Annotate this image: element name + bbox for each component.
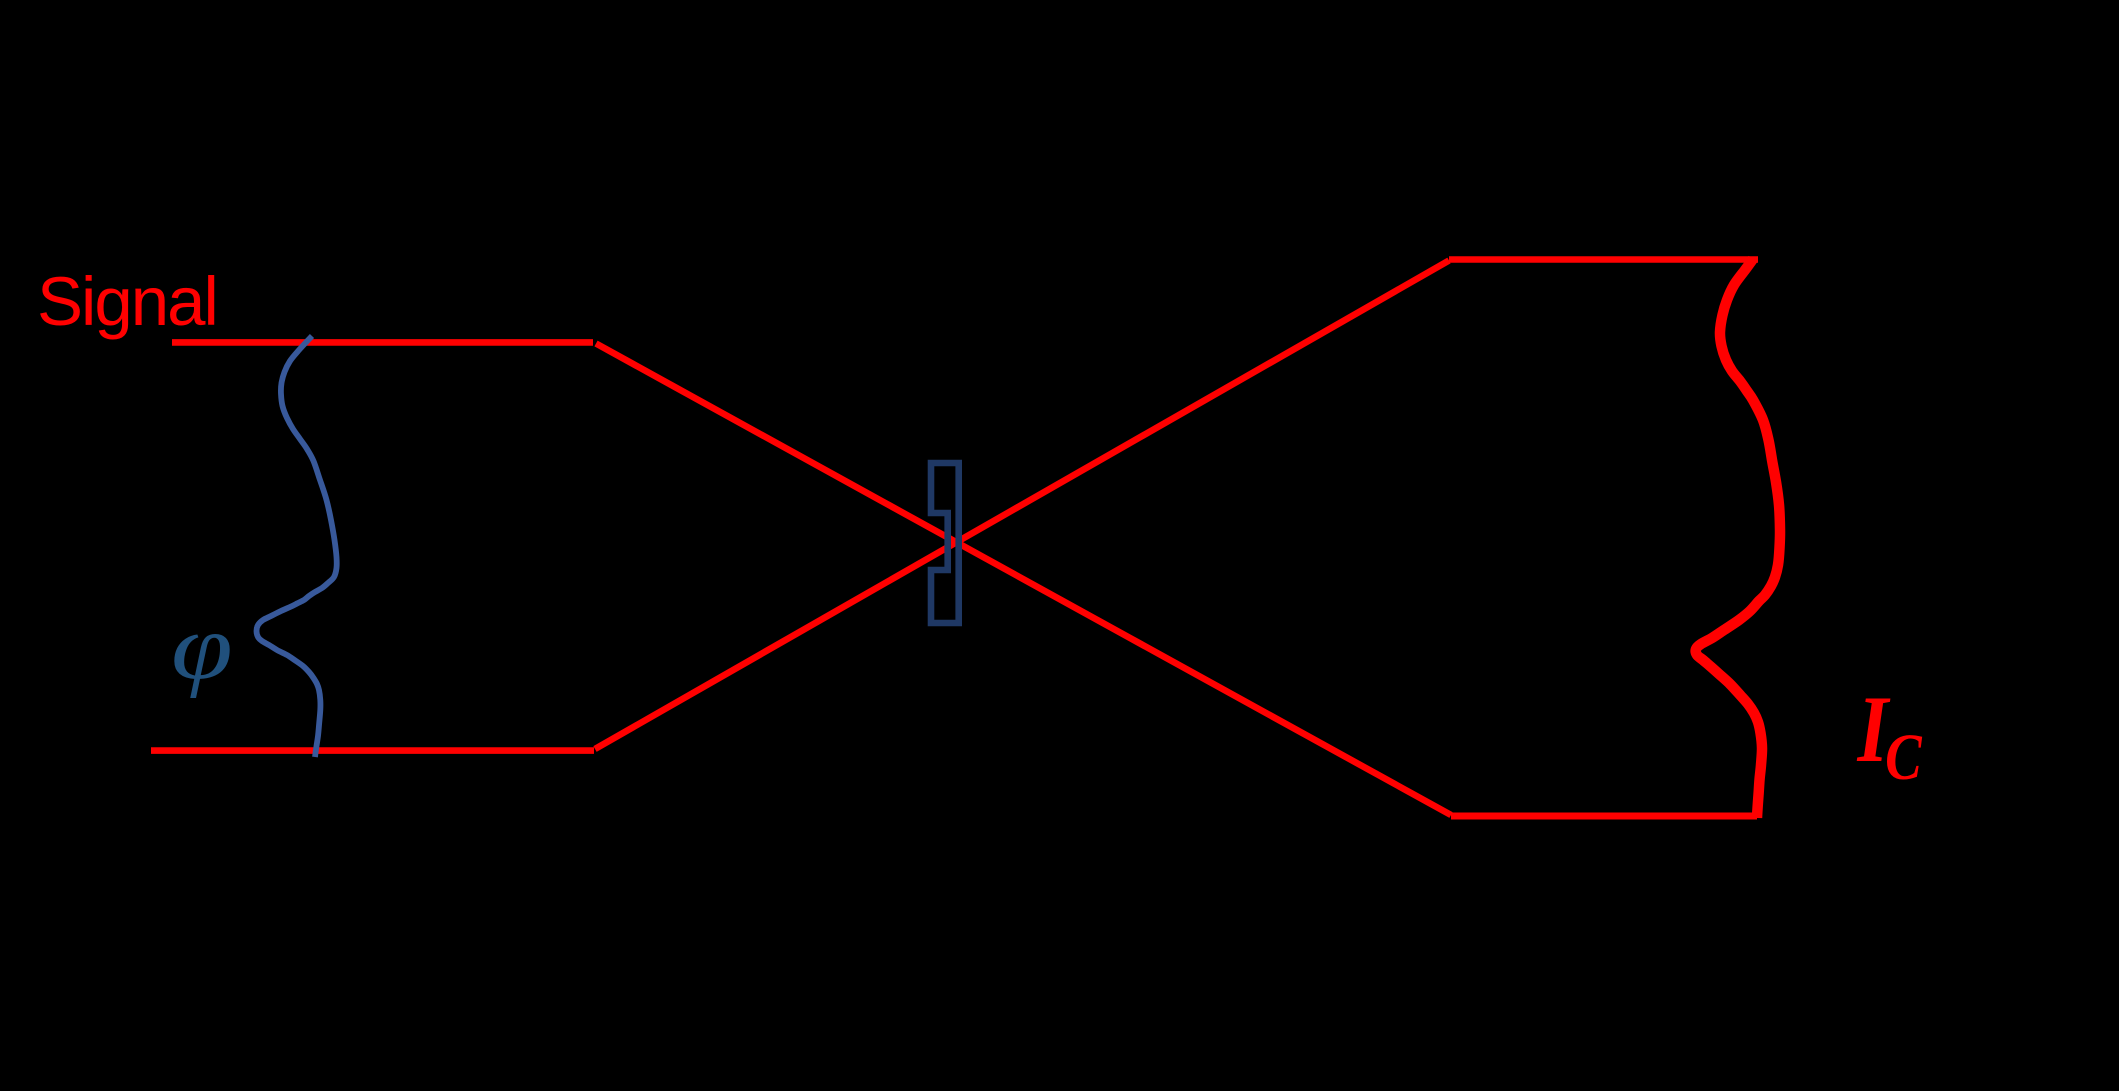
- brace: phase difference phi (blue squiggle): [257, 336, 337, 757]
- wire: top-right line: [1449, 256, 1758, 263]
- junction J1: weak-link constriction symbol: [931, 463, 959, 623]
- wire: top-left signal line: [172, 339, 593, 346]
- wire: diagonal from top-left line down to bottom-right line: [596, 344, 1451, 816]
- wire: bottom-left signal line: [151, 747, 594, 754]
- svg-text:Signal: Signal: [37, 263, 217, 340]
- wire: diagonal from bottom-left line up to top-right line: [595, 261, 1449, 750]
- svg-text:C: C: [1885, 721, 1923, 794]
- wire: bottom-right line: [1451, 813, 1757, 820]
- svg-text:φ: φ: [171, 596, 233, 699]
- brace: critical current Ic (red squiggle): [1696, 259, 1780, 818]
